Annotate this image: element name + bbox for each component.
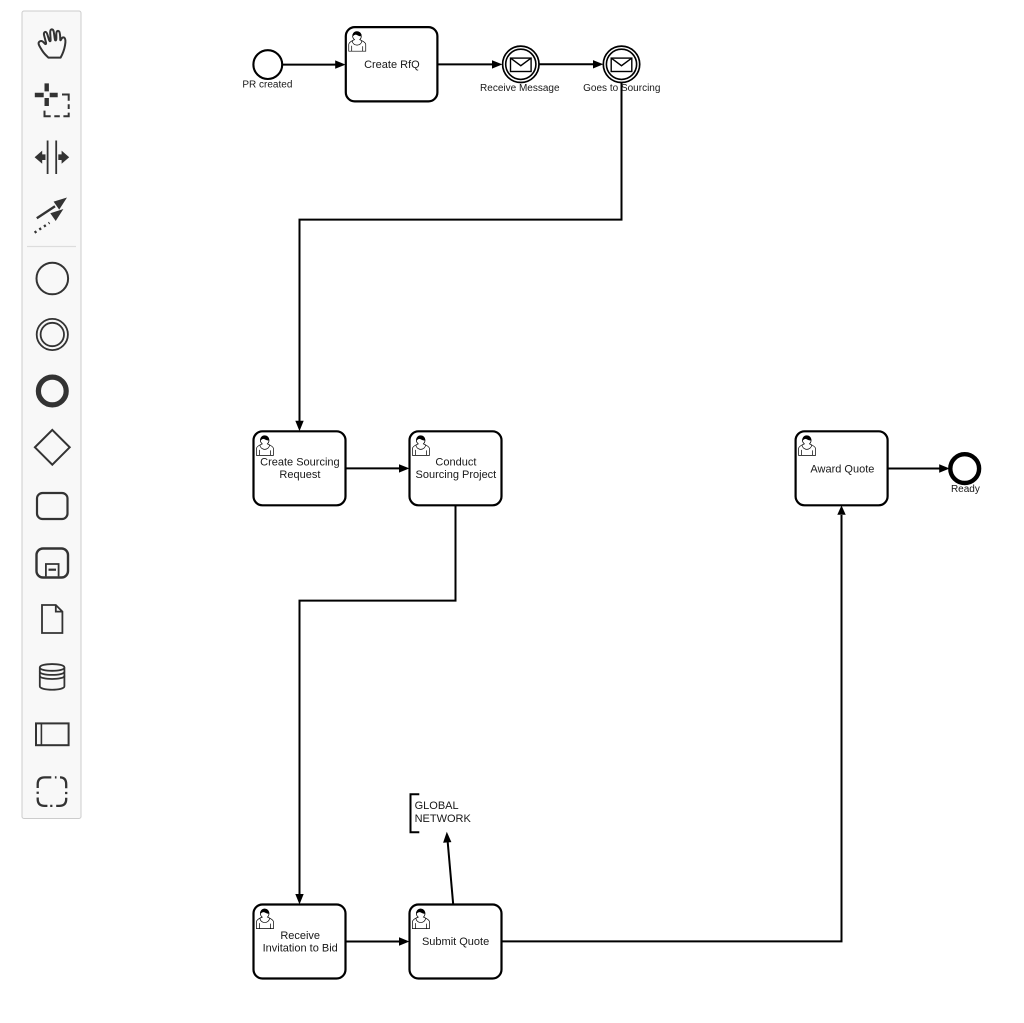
svg-text:Receive Message: Receive Message bbox=[480, 83, 560, 94]
svg-text:NETWORK: NETWORK bbox=[415, 813, 472, 825]
task Conduct Sourcing Project bbox=[410, 431, 502, 505]
separator bbox=[27, 246, 76, 248]
palette subprocess bbox=[37, 549, 69, 578]
task Award Quote bbox=[796, 431, 888, 505]
sequence flow Receive Invitation to Bid to Submit Quote bbox=[346, 941, 401, 943]
user icon Create RfQ bbox=[349, 32, 366, 52]
svg-text:GLOBAL: GLOBAL bbox=[415, 800, 459, 812]
palette intermediate event bbox=[37, 319, 68, 350]
svg-text:Award Quote: Award Quote bbox=[810, 463, 874, 475]
user icon Submit Quote bbox=[412, 909, 429, 929]
user icon Create Sourcing Request bbox=[256, 436, 273, 456]
task Receive Invitation to Bid bbox=[254, 905, 346, 979]
global connect tool bbox=[35, 198, 67, 233]
sequence flow Conduct Sourcing Project to Receive Invitation to Bid bbox=[300, 505, 456, 894]
svg-text:Invitation to Bid: Invitation to Bid bbox=[263, 942, 338, 954]
space tool bbox=[35, 141, 70, 175]
sequence flow Goes to Sourcing to Create Sourcing Request bbox=[300, 83, 622, 422]
palette end event bbox=[38, 377, 66, 405]
svg-text:Ready: Ready bbox=[951, 484, 980, 495]
palette data store bbox=[40, 664, 65, 690]
end event Ready bbox=[950, 454, 979, 483]
sequence flow Submit Quote to Award Quote bbox=[502, 515, 842, 941]
svg-text:Create RfQ: Create RfQ bbox=[364, 59, 420, 71]
user icon Receive Invitation to Bid bbox=[256, 909, 273, 929]
user icon Conduct Sourcing Project bbox=[412, 436, 429, 456]
svg-text:Receive: Receive bbox=[280, 930, 320, 942]
svg-text:Conduct: Conduct bbox=[435, 457, 476, 469]
palette data object bbox=[42, 605, 62, 633]
lasso tool bbox=[35, 83, 69, 116]
palette participant bbox=[36, 723, 69, 745]
palette gateway bbox=[35, 430, 70, 465]
start event PR created bbox=[253, 50, 282, 79]
svg-text:Submit Quote: Submit Quote bbox=[422, 936, 489, 948]
intermediate event Goes to Sourcing bbox=[603, 46, 639, 82]
palette group bbox=[38, 777, 66, 806]
sequence flow Receive Message to Goes to Sourcing bbox=[539, 63, 594, 65]
palette start event bbox=[37, 263, 69, 295]
sequence flow Create Sourcing Request to Conduct Sourcing Project bbox=[346, 467, 401, 469]
hand tool bbox=[39, 29, 66, 57]
task Create RfQ bbox=[346, 27, 438, 101]
user icon Award Quote bbox=[799, 436, 816, 456]
svg-text:Create Sourcing: Create Sourcing bbox=[260, 457, 340, 469]
sequence flow Create RfQ to Receive Message bbox=[438, 63, 494, 65]
text annotation GLOBAL NETWORK bbox=[411, 794, 420, 832]
svg-text:Request: Request bbox=[279, 469, 320, 481]
svg-text:PR created: PR created bbox=[242, 80, 292, 91]
palette task bbox=[37, 493, 68, 519]
association Submit Quote to annotation bbox=[448, 842, 454, 904]
task Create Sourcing Request bbox=[254, 431, 346, 505]
palette panel bbox=[22, 11, 81, 819]
sequence flow start to Create RfQ bbox=[283, 64, 337, 66]
svg-text:Sourcing Project: Sourcing Project bbox=[416, 469, 497, 481]
intermediate event Receive Message bbox=[503, 46, 539, 82]
task Submit Quote bbox=[410, 905, 502, 979]
sequence flow Award Quote to Ready bbox=[888, 468, 940, 470]
